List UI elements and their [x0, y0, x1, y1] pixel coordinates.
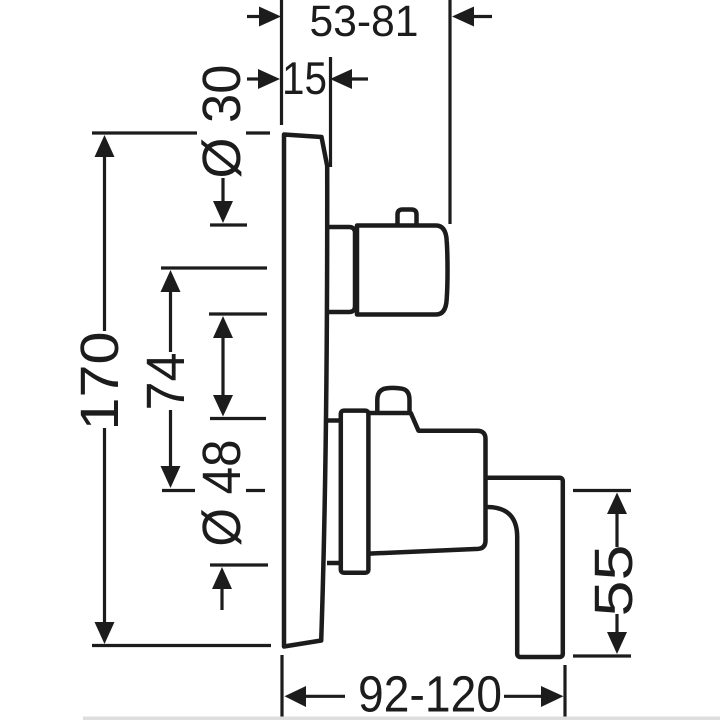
lower sleeve bottom edge	[327, 561, 341, 566]
dim dia30 lower tick	[209, 312, 267, 315]
dim 53-81 left extension line	[280, 0, 283, 125]
dim dia30 up arrowhead	[213, 316, 233, 338]
dim 74 upper tick	[161, 266, 267, 269]
dim dia48 lower arrow tail	[220, 588, 223, 610]
dim 55 lower tail	[615, 614, 618, 633]
label 170	[80, 334, 118, 426]
dim dia48 lower tick	[210, 563, 268, 566]
dim 74 upper tail	[169, 291, 172, 352]
dim 15 left tail	[247, 77, 259, 80]
label dia 30	[201, 67, 241, 177]
dim dia48 down arrowhead	[213, 395, 233, 417]
bottom gray strip	[83, 717, 720, 720]
dim 53-81 right arrowhead	[452, 7, 474, 27]
upper sleeve (thermostat cartridge collar)	[327, 227, 355, 312]
dim dia48 upper tick	[210, 417, 266, 420]
dim 170 bottom extension line	[92, 644, 271, 647]
dim 74 lower tail	[169, 410, 172, 467]
dim 15 left arrowhead	[258, 69, 280, 89]
dim 170 upper tail	[103, 156, 106, 331]
lever handle	[486, 478, 563, 657]
label 53-81	[311, 5, 416, 36]
dim 53-81 right extension line	[448, 0, 451, 224]
label 92-120	[360, 676, 500, 712]
dim 53-81 left tail	[247, 15, 260, 18]
label 74	[147, 354, 184, 408]
volume control body	[368, 413, 485, 554]
dim dia30 down arrowhead	[213, 201, 233, 223]
dim 92-120 right tail	[504, 695, 542, 698]
dim 92-120 right arrowhead	[541, 686, 564, 707]
dim 170 top extension line left part	[92, 131, 197, 134]
dim 55 upper tail	[615, 513, 618, 547]
dim dia48 up arrowhead	[212, 567, 232, 589]
thermostat safety button tab	[398, 210, 417, 226]
dim 170 lower tail	[103, 428, 106, 623]
dim 74 lower tick left	[162, 489, 195, 492]
volume control spindle cap	[377, 388, 409, 413]
dim 170 down arrowhead	[95, 622, 115, 644]
dim 74 down arrowhead	[161, 466, 181, 488]
label 55	[595, 547, 633, 614]
dim 53-81 right tail	[474, 15, 492, 18]
volume control flange	[341, 411, 369, 573]
dim dia30 upper tick	[210, 223, 247, 226]
lower sleeve top edge	[327, 418, 341, 423]
dim 15 right extension line	[329, 57, 332, 167]
dim dia30 upper arrow tail	[221, 178, 224, 203]
dim 74 up arrowhead	[161, 270, 181, 292]
label dia 48	[201, 442, 241, 545]
dim dia30/dia48 connecting line	[221, 337, 224, 396]
dim 170 up arrowhead	[95, 135, 115, 157]
dim 74 lower tick right	[246, 489, 265, 492]
dim 15 right arrowhead	[330, 69, 352, 89]
dim 92-120 left extension line	[280, 655, 283, 718]
dim 55 up arrowhead	[607, 493, 627, 515]
dim 55 lower tick	[573, 654, 631, 657]
dim 55 down arrowhead	[607, 632, 627, 654]
dim 92-120 right extension line	[563, 665, 566, 718]
dim 170 top extension line right part	[246, 131, 270, 134]
dim 92-120 left tail	[305, 695, 345, 698]
dim 53-81 left arrowhead	[259, 7, 281, 27]
dim 55 upper tick	[573, 489, 631, 492]
dim 92-120 left arrowhead	[285, 686, 307, 707]
wall plate escutcheon	[284, 135, 327, 647]
label 15	[285, 62, 325, 94]
thermostat handle body	[357, 226, 448, 315]
dim 15 right tail	[351, 77, 368, 80]
